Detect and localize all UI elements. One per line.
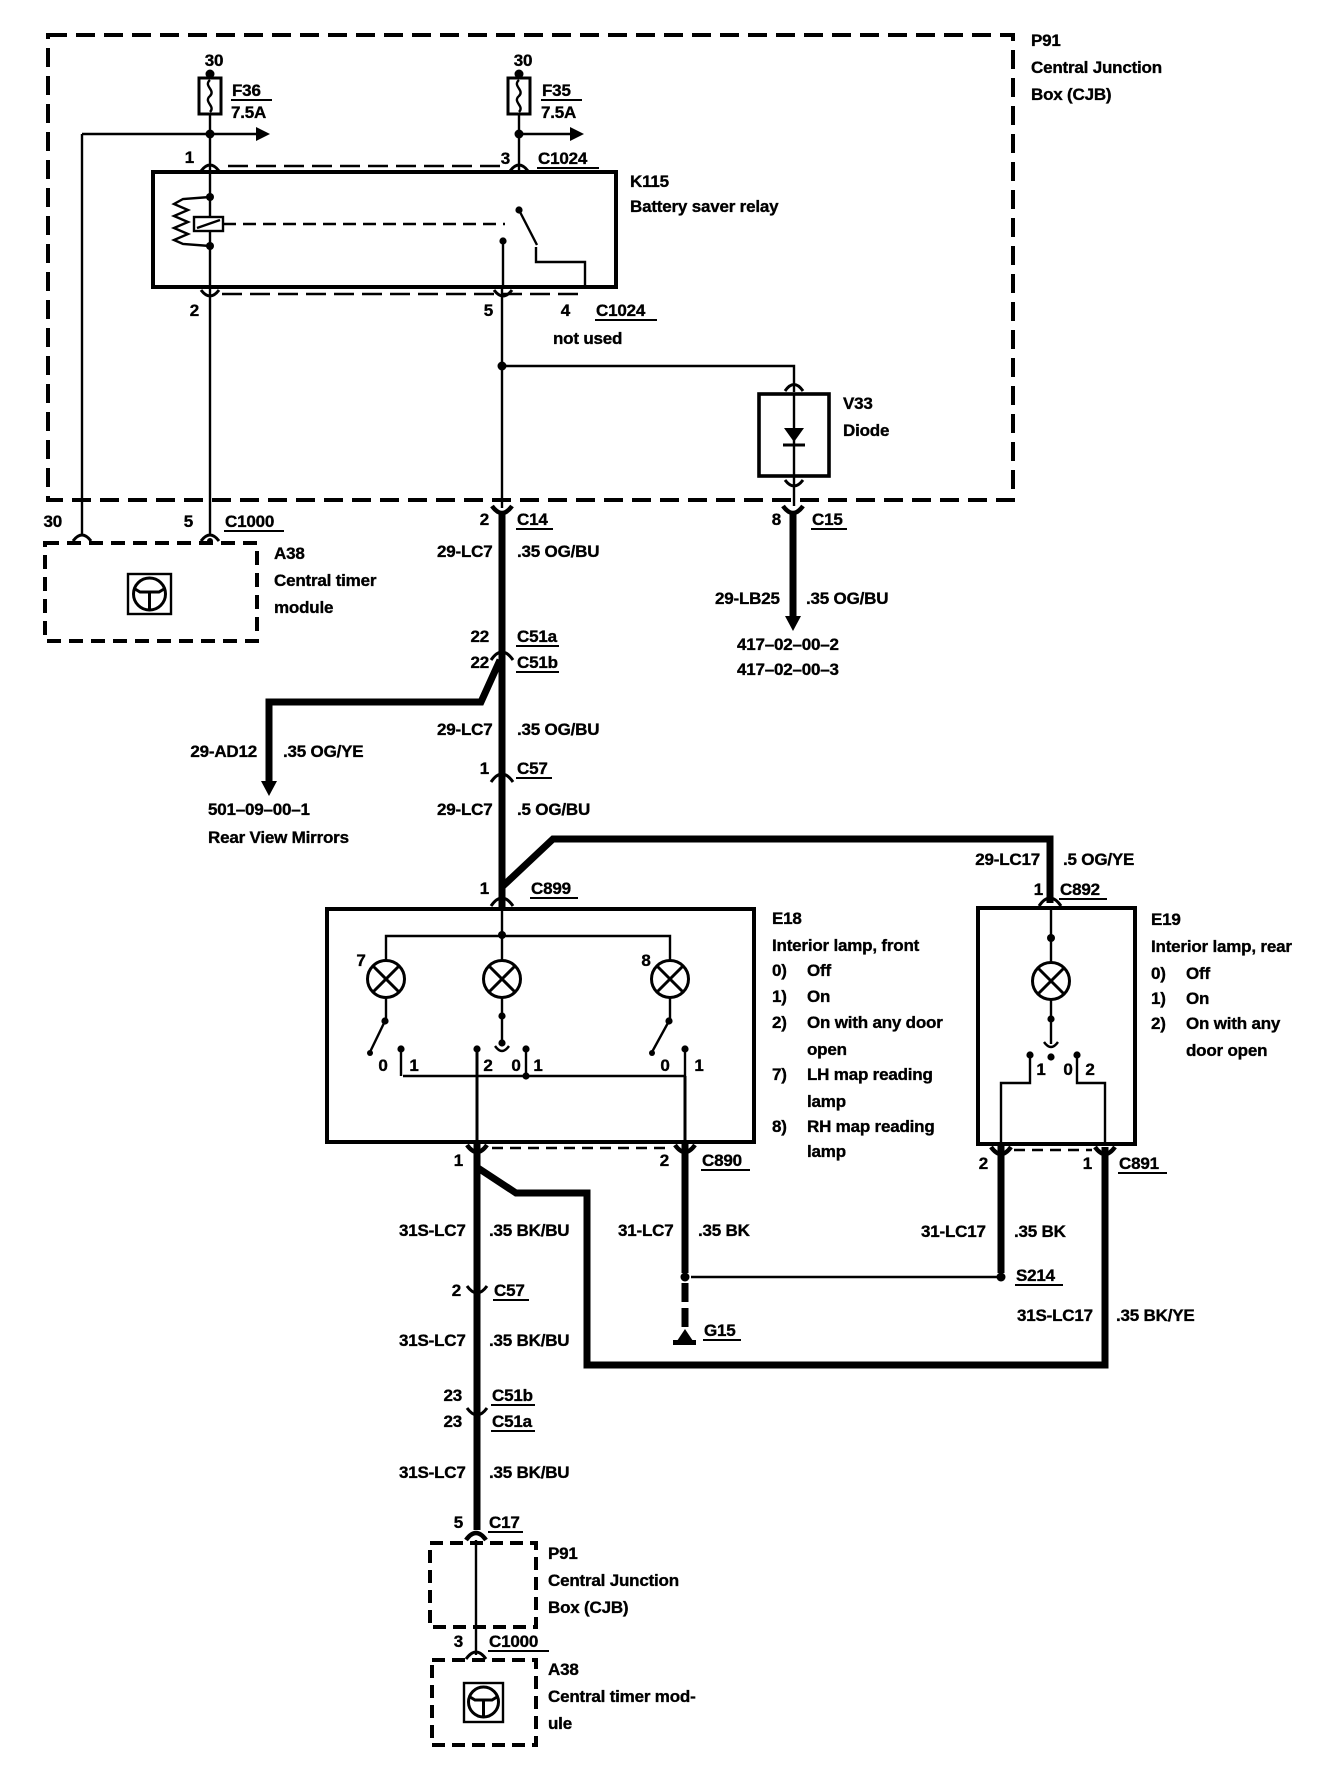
underline F35 [541, 99, 582, 101]
svg-text:C14: C14 [517, 510, 548, 529]
svg-text:.35 BK/BU: .35 BK/BU [489, 1221, 569, 1240]
svg-text:1: 1 [409, 1056, 418, 1075]
svg-text:Box (CJB): Box (CJB) [548, 1598, 628, 1617]
switch LH map lamp [367, 997, 405, 1076]
svg-text:Diode: Diode [843, 421, 889, 440]
wire contact 1 to pin 2 [1001, 1055, 1030, 1144]
svg-text:1: 1 [480, 879, 489, 898]
fuse F35 body [508, 78, 530, 114]
wire 31-LC7 thick pin2 C890 to G15 [682, 1142, 689, 1273]
node dot E18 feed [498, 931, 506, 939]
svg-text:2): 2) [1151, 1014, 1166, 1033]
arrow right from F36 junction [210, 133, 257, 135]
svg-text:4: 4 [561, 301, 571, 320]
svg-text:C17: C17 [489, 1513, 520, 1532]
connector chevron pin 5 [494, 290, 512, 296]
lamp symbol interior rear [1033, 963, 1070, 1000]
svg-text:RH map reading: RH map reading [807, 1117, 935, 1136]
wire splice S214 horizontal [691, 1276, 997, 1278]
relay switch pivot dot [515, 206, 522, 213]
switch interior front wiper [495, 997, 509, 1051]
svg-text:G15: G15 [704, 1321, 736, 1340]
svg-text:1: 1 [454, 1151, 463, 1170]
wire E18 feed from C899 [501, 909, 503, 935]
fuse F35 element squiggle [517, 80, 521, 112]
junction dot below F36 [206, 130, 215, 139]
svg-text:1: 1 [533, 1056, 542, 1075]
lamp symbol interior front [484, 961, 521, 998]
junction dot below F35 [515, 130, 524, 139]
connector chevron pin 2 [201, 290, 219, 296]
relay switch blade [519, 210, 537, 245]
svg-text:.35 OG/YE: .35 OG/YE [283, 742, 363, 761]
svg-text:5: 5 [454, 1513, 463, 1532]
E19 interior lamp rear box [978, 908, 1135, 1144]
lamp symbol LH map reading [368, 961, 405, 998]
lamp symbol RH map reading [652, 961, 689, 998]
connector chevron A38 pin 30 [73, 535, 91, 541]
svg-text:Off: Off [807, 961, 831, 980]
svg-text:31S-LC17: 31S-LC17 [1017, 1306, 1093, 1325]
wire 31-LC17 thick pin2 C891 to S214 [998, 1146, 1005, 1273]
connector chevron C891 pin 1 [1095, 1147, 1115, 1154]
svg-text:E18: E18 [772, 909, 802, 928]
svg-text:open: open [807, 1040, 847, 1059]
node dot G15 junction [681, 1273, 690, 1282]
wire E18 lamp bus horizontal [386, 936, 670, 960]
svg-text:module: module [274, 598, 333, 617]
P91 Central Junction Box (CJB) dashed outline [48, 35, 1013, 500]
connector chevron A38 pin 5 [201, 535, 219, 541]
coil top node dot [206, 193, 214, 201]
svg-text:8): 8) [772, 1117, 787, 1136]
svg-text:0): 0) [772, 961, 787, 980]
switch contact 2 (E19) [1073, 1051, 1080, 1058]
svg-text:Interior lamp, front: Interior lamp, front [772, 936, 920, 955]
connector C1024 dashed line (top) [228, 165, 508, 167]
svg-text:31S-LC7: 31S-LC7 [399, 1221, 466, 1240]
svg-text:Interior lamp, rear: Interior lamp, rear [1151, 937, 1292, 956]
svg-text:29-AD12: 29-AD12 [190, 742, 257, 761]
svg-text:ule: ule [548, 1714, 572, 1733]
svg-text:501–09–00–1: 501–09–00–1 [208, 800, 310, 819]
svg-text:.35 BK/YE: .35 BK/YE [1116, 1306, 1195, 1325]
svg-text:.35 BK: .35 BK [698, 1221, 751, 1240]
svg-text:On: On [1186, 989, 1209, 1008]
svg-text:.5 OG/YE: .5 OG/YE [1063, 850, 1134, 869]
connector chevron C1000 lower [466, 1652, 486, 1659]
svg-text:29-LC7: 29-LC7 [437, 800, 493, 819]
svg-text:7.5A: 7.5A [231, 103, 266, 122]
svg-text:On with any: On with any [1186, 1014, 1281, 1033]
svg-text:C51b: C51b [492, 1386, 533, 1405]
svg-text:417–02–00–2: 417–02–00–2 [737, 635, 839, 654]
switch contact 1 (E19) [1026, 1051, 1033, 1058]
svg-text:7): 7) [772, 1065, 787, 1084]
svg-text:22: 22 [470, 653, 489, 672]
svg-text:F35: F35 [542, 81, 571, 100]
connector chevron pin 3 [510, 165, 528, 171]
wire contact 2 to pin 1 [1077, 1055, 1105, 1144]
diode V33 box [759, 394, 829, 476]
svg-text:417–02–00–3: 417–02–00–3 [737, 660, 839, 679]
svg-text:C1000: C1000 [225, 512, 274, 531]
svg-text:29-LC17: 29-LC17 [975, 850, 1040, 869]
svg-text:Central Junction: Central Junction [548, 1571, 679, 1590]
svg-text:.35 OG/BU: .35 OG/BU [517, 720, 599, 739]
svg-text:.35 BK/BU: .35 BK/BU [489, 1463, 569, 1482]
svg-text:LH map reading: LH map reading [807, 1065, 933, 1084]
A38 steering wheel icon (lower) [464, 1683, 503, 1722]
svg-text:On: On [807, 987, 830, 1006]
diode triangle symbol [784, 428, 804, 442]
wire branch to diode V33 [502, 366, 794, 392]
svg-text:C892: C892 [1060, 880, 1100, 899]
wire left drop to A38 pin 30 [81, 134, 83, 536]
svg-text:2: 2 [483, 1056, 492, 1075]
svg-text:3: 3 [454, 1632, 463, 1651]
svg-text:5: 5 [184, 512, 193, 531]
connector chevron pin 1 [201, 165, 219, 171]
svg-text:C891: C891 [1119, 1154, 1159, 1173]
svg-text:3: 3 [501, 149, 510, 168]
svg-text:1: 1 [1036, 1060, 1045, 1079]
svg-text:C1024: C1024 [596, 301, 646, 320]
relay switch contact step to pin 4 [536, 247, 585, 287]
svg-text:Central Junction: Central Junction [1031, 58, 1162, 77]
svg-text:E19: E19 [1151, 910, 1181, 929]
relay pin 5 contact dot [499, 237, 506, 244]
switch contact 2 (to pin 1) [473, 1045, 480, 1052]
svg-text:31S-LC7: 31S-LC7 [399, 1331, 466, 1350]
svg-text:1: 1 [1083, 1154, 1092, 1173]
svg-text:On with any door: On with any door [807, 1013, 943, 1032]
svg-text:C890: C890 [702, 1151, 742, 1170]
connector chevron C17 [466, 1533, 486, 1540]
svg-text:.5 OG/BU: .5 OG/BU [517, 800, 590, 819]
svg-text:2: 2 [452, 1281, 461, 1300]
wire contact 2 to pin 1 [476, 1049, 479, 1142]
svg-text:29-LC7: 29-LC7 [437, 720, 493, 739]
wire switch common bus [403, 1075, 685, 1077]
svg-text:.35 OG/BU: .35 OG/BU [517, 542, 599, 561]
arrow end 29-LB25 [785, 616, 801, 631]
A38 steering wheel icon [128, 574, 171, 614]
svg-text:29-LC7: 29-LC7 [437, 542, 493, 561]
ground G15 symbol [677, 1329, 693, 1341]
svg-text:0): 0) [1151, 964, 1166, 983]
svg-text:1): 1) [772, 987, 787, 1006]
splice S214 dot [997, 1273, 1006, 1282]
A38 Central timer module dashed box (lower) [432, 1660, 536, 1745]
relay coil vertical wire pin1-pin2 [209, 172, 211, 287]
switch RH map lamp [649, 997, 689, 1076]
node dot above F35 [515, 70, 524, 79]
svg-text:Off: Off [1186, 964, 1210, 983]
A38 Central timer module dashed box (top) [45, 543, 257, 641]
svg-text:2: 2 [480, 510, 489, 529]
svg-text:C57: C57 [494, 1281, 525, 1300]
svg-text:C899: C899 [531, 879, 571, 898]
connector chevron C57 lower [467, 1286, 487, 1293]
connector chevron diode bottom [785, 480, 803, 486]
svg-text:C51a: C51a [517, 627, 558, 646]
connector chevron C899 [491, 898, 513, 906]
svg-text:23: 23 [443, 1412, 462, 1431]
svg-text:not used: not used [553, 329, 622, 348]
svg-text:A38: A38 [548, 1660, 579, 1679]
svg-text:lamp: lamp [807, 1142, 846, 1161]
wire F36 to junction [209, 114, 211, 170]
relay K115 box [153, 172, 616, 287]
fuse F36 element squiggle [208, 80, 212, 112]
arrow end 29-AD12 [261, 781, 277, 796]
connector chevron C14 [492, 506, 512, 513]
svg-text:Battery saver relay: Battery saver relay [630, 197, 779, 216]
svg-text:door open: door open [1186, 1041, 1267, 1060]
wire diode bottom [793, 476, 795, 506]
svg-text:C57: C57 [517, 759, 548, 778]
svg-text:Central timer: Central timer [274, 571, 377, 590]
switch contact 0/1 [522, 1045, 529, 1052]
svg-text:1): 1) [1151, 989, 1166, 1008]
svg-text:C51b: C51b [517, 653, 558, 672]
svg-text:A38: A38 [274, 544, 305, 563]
svg-text:P91: P91 [1031, 31, 1061, 50]
svg-text:30: 30 [205, 51, 224, 70]
coil bottom node dot [206, 242, 214, 250]
diode cathode bar [783, 444, 805, 447]
underline F36 [231, 99, 272, 101]
svg-text:8: 8 [641, 951, 650, 970]
fuse F36 [199, 51, 272, 122]
wire 31S-LC7 thick main run pin1 C890 down to C17 [474, 1142, 481, 1530]
junction dot to diode branch [498, 362, 507, 371]
relay coil core symbol [194, 217, 223, 231]
svg-text:22: 22 [470, 627, 489, 646]
svg-text:F36: F36 [232, 81, 261, 100]
switch interior rear wiper [1044, 999, 1058, 1061]
connector chevron C15 [783, 506, 803, 513]
svg-text:8: 8 [772, 510, 781, 529]
wire branch 29-LC17 to E19 [503, 839, 1050, 903]
svg-text:C1000: C1000 [489, 1632, 538, 1651]
wire E19 feed from C892 [1050, 908, 1052, 962]
wire pin5 inside relay [502, 241, 504, 287]
svg-text:31-LC17: 31-LC17 [921, 1222, 986, 1241]
svg-text:2): 2) [772, 1013, 787, 1032]
svg-text:P91: P91 [548, 1544, 578, 1563]
svg-text:31S-LC7: 31S-LC7 [399, 1463, 466, 1482]
wire F35 to relay pin 3 [518, 114, 520, 170]
wire thin into P91 lower [475, 1540, 477, 1655]
svg-text:5: 5 [484, 301, 493, 320]
svg-text:C15: C15 [812, 510, 843, 529]
svg-text:Box (CJB): Box (CJB) [1031, 85, 1111, 104]
wire branch 29-AD12 [269, 660, 500, 783]
svg-text:V33: V33 [843, 394, 873, 413]
svg-text:1: 1 [185, 148, 194, 167]
svg-text:2: 2 [190, 301, 199, 320]
connector chevron C51a/C51b [491, 652, 513, 660]
wire relay pin2 down to A38 pin 5 [209, 287, 211, 536]
fuse F36 body [199, 78, 221, 114]
svg-text:2: 2 [979, 1154, 988, 1173]
svg-text:2: 2 [1085, 1060, 1094, 1079]
wire relay pin5 down to C14 [501, 287, 503, 508]
node dot E19 feed [1047, 934, 1055, 942]
svg-text:29-LB25: 29-LB25 [715, 589, 780, 608]
arrow right from F35 junction [519, 133, 571, 135]
diode internal wire [793, 394, 795, 476]
connector chevron C57 [491, 774, 513, 782]
wire junction to left drop [82, 133, 210, 135]
svg-text:S214: S214 [1016, 1266, 1056, 1285]
svg-text:0: 0 [1063, 1060, 1072, 1079]
svg-text:7.5A: 7.5A [541, 103, 576, 122]
svg-text:Rear View Mirrors: Rear View Mirrors [208, 828, 349, 847]
svg-text:C1024: C1024 [538, 149, 588, 168]
svg-text:7: 7 [356, 951, 365, 970]
connector C890 dashed line [492, 1147, 672, 1149]
svg-text:.35 BK: .35 BK [1014, 1222, 1067, 1241]
connector C1024 dashed line (bottom) [222, 293, 580, 295]
svg-text:23: 23 [443, 1386, 462, 1405]
wire 29-LB25 thick drop [790, 512, 797, 618]
wire branch to splice path (31S-LC17 loop) [478, 1147, 1105, 1365]
node dot on bus [522, 1072, 529, 1079]
relay mechanical link dashed [223, 223, 505, 225]
coil resistor zigzag [174, 197, 210, 246]
svg-text:0: 0 [511, 1056, 520, 1075]
wire bus to pin 2 [684, 1076, 687, 1142]
connector C891 dashed line [1014, 1149, 1092, 1151]
wire 29-LC7 thick main run C14 to C899 [499, 511, 506, 910]
svg-text:C51a: C51a [492, 1412, 533, 1431]
node dot above F36 [206, 70, 215, 79]
svg-text:1: 1 [694, 1056, 703, 1075]
P91 CJB dashed box (lower) [430, 1543, 536, 1627]
connector chevron diode top [785, 385, 803, 392]
svg-text:30: 30 [514, 51, 533, 70]
svg-text:0: 0 [660, 1056, 669, 1075]
svg-text:lamp: lamp [807, 1092, 846, 1111]
svg-text:1: 1 [1034, 880, 1043, 899]
connector chevron C890 pin 2 [675, 1145, 695, 1152]
svg-text:K115: K115 [630, 172, 669, 191]
node dot A38 pin 5 [207, 538, 213, 544]
ground lead dashed [682, 1283, 689, 1333]
svg-text:31-LC7: 31-LC7 [618, 1221, 674, 1240]
connector chevron C51b/C51a lower [467, 1408, 487, 1415]
svg-text:1: 1 [480, 759, 489, 778]
svg-text:.35 OG/BU: .35 OG/BU [806, 589, 888, 608]
fuse F35 [508, 51, 582, 122]
svg-text:0: 0 [378, 1056, 387, 1075]
svg-text:.35 BK/BU: .35 BK/BU [489, 1331, 569, 1350]
connector chevron C892 [1039, 898, 1061, 906]
svg-text:Central timer mod-: Central timer mod- [548, 1687, 696, 1706]
svg-text:2: 2 [660, 1151, 669, 1170]
connector chevron C890 pin 1 [467, 1145, 487, 1152]
E18 interior lamp front box [327, 909, 754, 1142]
svg-text:30: 30 [43, 512, 62, 531]
wire stub middle lamp [501, 935, 503, 960]
connector chevron C891 pin 2 [991, 1147, 1011, 1154]
